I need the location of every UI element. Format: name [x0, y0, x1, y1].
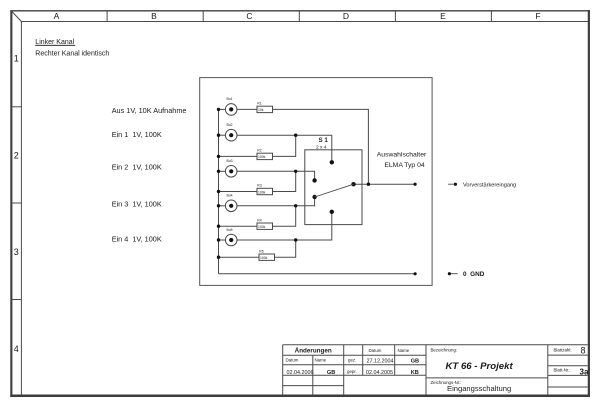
- wire node Ein2 down to R3: [273, 171, 296, 191]
- svg-text:Bu1: Bu1: [227, 97, 233, 101]
- svg-text:C: C: [246, 11, 252, 21]
- switch S1: [305, 137, 362, 225]
- svg-text:3: 3: [14, 247, 19, 257]
- ground bottom wire: [219, 273, 416, 275]
- svg-text:02.04.2006: 02.04.2006: [287, 370, 314, 376]
- connector Bu3: [219, 159, 238, 177]
- svg-text:R1: R1: [257, 102, 261, 106]
- svg-text:Datum: Datum: [369, 348, 382, 353]
- node ground endpoint: [414, 272, 417, 275]
- svg-text:2 x 4: 2 x 4: [316, 145, 327, 151]
- svg-text:1: 1: [14, 53, 19, 63]
- wire R1 to output node: [273, 109, 369, 184]
- svg-text:2: 2: [14, 151, 19, 161]
- resistor R3: [257, 184, 273, 195]
- junction node Ein1: [294, 134, 297, 137]
- wire node Ein1 down to R2: [273, 135, 296, 156]
- ground bus wire: [218, 109, 220, 273]
- svg-text:Eingangsschaltung: Eingangsschaltung: [447, 384, 511, 393]
- junction node Ein4: [294, 238, 297, 241]
- junction ground bus R3: [217, 190, 220, 193]
- wire R4 to ground bus: [219, 225, 258, 227]
- svg-text:S 1: S 1: [319, 137, 329, 144]
- svg-text:gepr.: gepr.: [347, 369, 357, 374]
- wire switch common to output: [354, 183, 416, 185]
- junction node Ein3: [294, 204, 297, 207]
- svg-text:4: 4: [14, 344, 19, 354]
- svg-text:KT 66 - Projekt: KT 66 - Projekt: [446, 361, 514, 372]
- junction ground bus row1: [217, 108, 220, 111]
- connector Bu4: [219, 194, 238, 212]
- svg-text:Bu4: Bu4: [227, 194, 233, 198]
- svg-text:8: 8: [581, 345, 586, 355]
- resistor R5: [259, 249, 275, 260]
- resistor R2: [257, 149, 273, 160]
- svg-text:Datum: Datum: [286, 357, 299, 362]
- svg-text:Vorverstärkereingang: Vorverstärkereingang: [463, 182, 516, 188]
- svg-text:GB: GB: [327, 370, 335, 376]
- svg-text:R3: R3: [257, 184, 261, 188]
- wire Bu4 to switch contact 3: [237, 197, 315, 206]
- svg-text:B: B: [151, 11, 157, 21]
- wire node Ein3 down to R4: [273, 206, 296, 226]
- node output endpoint: [414, 183, 417, 186]
- wire Bu5 to switch contact 4: [237, 212, 332, 240]
- label switch type: [377, 151, 427, 169]
- svg-text:F: F: [535, 11, 540, 21]
- junction ground bus row4: [217, 204, 220, 207]
- connector Bu5: [219, 228, 238, 246]
- connector Bu1: [219, 97, 238, 115]
- svg-text:3a: 3a: [580, 367, 589, 376]
- net 0 GND: [448, 271, 485, 278]
- svg-text:Aus 1V, 10K Aufnahme: Aus 1V, 10K Aufnahme: [112, 106, 187, 115]
- junction output node: [367, 183, 370, 186]
- svg-text:R2: R2: [257, 149, 261, 153]
- svg-text:100k: 100k: [258, 155, 266, 159]
- wire Bu1 to R1: [237, 108, 257, 110]
- svg-text:gez.: gez.: [348, 357, 356, 362]
- svg-text:Rechter Kanal identisch: Rechter Kanal identisch: [35, 50, 109, 57]
- svg-text:Bu3: Bu3: [227, 159, 233, 163]
- junction ground bus row3: [217, 170, 220, 173]
- wire R2 to ground bus: [219, 155, 258, 157]
- svg-text:10k: 10k: [258, 108, 264, 112]
- svg-text:Blatt-Nr.:: Blatt-Nr.:: [554, 368, 571, 373]
- svg-text:Ein 3 1V, 100K: Ein 3 1V, 100K: [112, 200, 162, 209]
- svg-text:Änderungen: Änderungen: [295, 347, 332, 355]
- junction ground bus R2: [217, 155, 220, 158]
- svg-text:100k: 100k: [258, 225, 266, 229]
- junction ground bus row5: [217, 238, 220, 241]
- svg-text:Ein 4 1V, 100K: Ein 4 1V, 100K: [112, 235, 162, 244]
- svg-text:0 GND: 0 GND: [463, 271, 485, 278]
- note Linker Kanal: [35, 39, 75, 46]
- svg-text:KB: KB: [411, 370, 419, 376]
- junction ground bus row2: [217, 134, 220, 137]
- svg-text:Bu2: Bu2: [227, 123, 233, 127]
- svg-text:100k: 100k: [258, 190, 266, 194]
- svg-text:02.04.2005: 02.04.2005: [366, 370, 393, 376]
- title block: [283, 345, 588, 395]
- svg-text:R5: R5: [259, 249, 263, 253]
- svg-text:Bu5: Bu5: [227, 228, 233, 232]
- wire R5 to ground bus: [219, 256, 260, 258]
- wire node Ein4 down to R5: [274, 240, 296, 257]
- svg-text:Linker Kanal: Linker Kanal: [35, 39, 74, 46]
- wire Bu2 to switch contact 1: [237, 135, 332, 162]
- wire Bu3 to switch contact 2: [237, 171, 315, 180]
- junction node Ein2: [294, 170, 297, 173]
- svg-text:Auswahlschalter: Auswahlschalter: [377, 151, 427, 158]
- svg-text:A: A: [54, 11, 60, 21]
- svg-text:D: D: [343, 11, 349, 21]
- svg-text:Bezeichnung:: Bezeichnung:: [431, 348, 458, 353]
- schematic enclosure box: [200, 78, 432, 286]
- svg-text:100k: 100k: [260, 256, 268, 260]
- svg-text:Name: Name: [315, 357, 327, 362]
- junction ground bus R5: [217, 256, 220, 259]
- svg-text:Ein 1 1V, 100K: Ein 1 1V, 100K: [112, 130, 162, 139]
- resistor R4: [257, 218, 273, 229]
- svg-text:Ein 2 1V, 100K: Ein 2 1V, 100K: [112, 163, 162, 172]
- connector Bu2: [219, 123, 238, 141]
- svg-text:Blattzahl:: Blattzahl:: [554, 348, 572, 353]
- svg-text:GB: GB: [411, 359, 419, 365]
- svg-text:ELMA Typ 04: ELMA Typ 04: [384, 162, 425, 169]
- svg-text:27.12.2004: 27.12.2004: [367, 358, 394, 364]
- svg-text:E: E: [440, 11, 446, 21]
- net Vorverstärkereingang: [448, 182, 516, 188]
- resistor R1: [257, 102, 273, 113]
- svg-text:R4: R4: [257, 218, 261, 222]
- junction ground bus R4: [217, 225, 220, 228]
- wire R3 to ground bus: [219, 191, 258, 193]
- svg-text:Name: Name: [398, 348, 410, 353]
